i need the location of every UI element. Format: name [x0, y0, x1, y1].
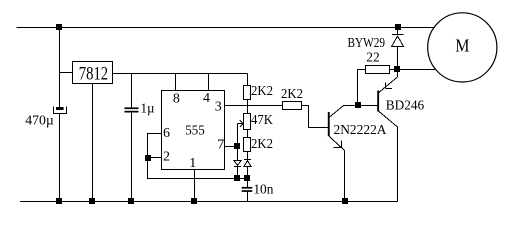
svg-text:2K2: 2K2 [281, 87, 303, 102]
svg-text:3: 3 [215, 99, 222, 114]
svg-text:BYW29: BYW29 [348, 36, 386, 51]
svg-text:555: 555 [185, 124, 204, 139]
svg-text:2: 2 [163, 149, 170, 164]
svg-text:470µ: 470µ [25, 114, 54, 129]
svg-text:2N2222A: 2N2222A [334, 123, 388, 138]
svg-text:8: 8 [173, 92, 180, 107]
svg-text:2K2: 2K2 [251, 84, 273, 99]
svg-text:47K: 47K [251, 113, 273, 128]
svg-text:M: M [455, 36, 469, 56]
svg-text:7: 7 [217, 138, 224, 153]
svg-text:4: 4 [203, 91, 210, 106]
svg-text:22: 22 [366, 50, 380, 65]
svg-text:BD246: BD246 [386, 99, 424, 114]
svg-text:1: 1 [189, 156, 196, 171]
svg-text:1µ: 1µ [141, 102, 155, 117]
svg-text:2K2: 2K2 [251, 137, 273, 152]
svg-text:10n: 10n [253, 182, 273, 197]
svg-text:6: 6 [163, 126, 170, 141]
svg-text:7812: 7812 [79, 64, 108, 84]
